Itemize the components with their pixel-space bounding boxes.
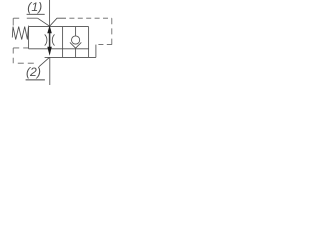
svg-text:(1): (1): [27, 0, 42, 14]
svg-text:(2): (2): [26, 65, 41, 79]
